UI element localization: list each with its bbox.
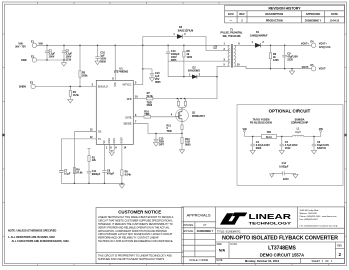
SS wire [74,132,96,184]
bottom GND rail [61,183,124,188]
capacitor C7 [59,171,63,173]
svg-text:NON-OPTO ISOLATED FLYBACK CONV: NON-OPTO ISOLATED FLYBACK CONVERTER [222,236,338,242]
wire VIN pin drop to U1 [114,45,116,80]
resistor R13 sense [179,134,184,154]
title block [182,207,345,264]
svg-text:TC: TC [98,138,101,141]
svg-text:TECHNOLOGY: TECHNOLOGY [249,220,292,225]
wire VIN rail [37,44,223,46]
pin 5 INTVCC wire [133,84,143,86]
gate wire with R10 [133,116,175,119]
svg-text:DESCRIPTION: DESCRIPTION [265,12,283,16]
svg-text:1206: 1206 [187,56,193,59]
svg-text:TBD: TBD [144,113,149,116]
diode D3 BAS21ZFILM [177,34,182,38]
svg-text:ECO: ECO [228,12,234,16]
diode D1 [241,44,311,46]
notes [8,229,70,243]
svg-text:0805: 0805 [100,61,106,64]
capacitor C15 [153,134,158,147]
svg-text:INTVCC: INTVCC [123,84,132,87]
terminal E2 [32,58,36,62]
clamp bottom wire [168,76,192,78]
svg-text:NOTE: UNLESS OTHERWISE SPECIFI: NOTE: UNLESS OTHERWISE SPECIFIED [8,229,56,232]
svg-text:Phone: (408)432-1900: Phone: (408)432-1900 [300,216,322,218]
ground left of C14 [270,173,275,177]
inductor L1 [293,135,304,136]
resistor R3 205k [79,45,81,86]
terminal E1 [32,43,36,47]
svg-text:N/A: N/A [219,249,226,253]
clamp R8 [183,45,185,76]
svg-text:1812: 1812 [285,147,291,150]
optional circuit box [237,105,343,186]
ground right of C14 [293,173,298,178]
svg-text:SENSE: SENSE [123,123,132,126]
svg-text:SHDN: SHDN [19,86,26,89]
svg-text:2: 2 [339,252,342,257]
svg-text:100V: 100V [49,55,55,58]
svg-text:10µH: 10µH [295,132,301,134]
svg-text:97.6k: 97.6k [76,171,83,174]
svg-text:GND: GND [113,138,116,144]
wire GND from E2 [37,59,66,61]
svg-text:36V - 75V: 36V - 75V [15,46,26,49]
svg-text:ZHONGMING Y: ZHONGMING Y [305,20,322,22]
snubber resistor pair above Q1 [177,99,186,109]
LT logo [220,212,292,225]
svg-text:FDMC2674: FDMC2674 [192,115,205,118]
svg-text:205k: 205k [82,75,88,78]
svg-text:VIN: VIN [39,43,43,46]
terminal E5 [311,67,315,71]
svg-text:VOUT+: VOUT+ [301,42,310,45]
svg-text:DATE:: DATE: [217,259,224,262]
svg-text:ENUVLO: ENUVLO [98,86,108,89]
svg-text:SCALE = NONE: SCALE = NONE [189,258,208,262]
svg-text:FB NL321611GS00: FB NL321611GS00 [250,122,273,125]
svg-text:LT3748EMS: LT3748EMS [268,245,296,251]
svg-text:0603: 0603 [147,104,153,107]
TC wire [61,139,96,183]
wire VOUT- rail [241,66,311,68]
svg-text:0.1µF: 0.1µF [64,172,71,175]
capacitor C1 [45,45,49,60]
svg-text:0805: 0805 [155,81,161,84]
resistor R9 [73,168,75,174]
svg-text:ALL CAPACITORS ARE IN MICROFAR: ALL CAPACITORS ARE IN MICROFARADS, 0402. [12,240,70,243]
svg-text:SUPPLIED FOR USE WITH LINEAR T: SUPPLIED FOR USE WITH LINEAR TECHNOLOGY … [98,258,165,261]
svg-text:1. ALL RESISTORS ARE IN OHMS,: 1. ALL RESISTORS ARE IN OHMS, 0402 [8,236,55,239]
svg-text:Milpitas, CA 95035: Milpitas, CA 95035 [300,212,318,215]
capacitor C6 [311,137,316,155]
capacitor C16 branch [143,69,155,82]
RFB wire with R7 [133,97,177,100]
svg-text:TBD: TBD [167,130,172,133]
customer notice box [96,208,184,264]
svg-text:6.04k: 6.04k [125,173,132,176]
R1 / C11 branch [87,149,91,184]
svg-text:10-04-10: 10-04-10 [330,19,340,22]
svg-text:TECHNOLOGY APPLICATIONS ENGINE: TECHNOLOGY APPLICATIONS ENGINEERING FOR … [98,240,173,243]
svg-text:GND: GND [21,59,27,62]
svg-text:12V@1.5A: 12V@1.5A [319,46,331,49]
svg-text:APPROVALS: APPROVALS [187,213,211,218]
ferrite bead FB1 [262,134,277,138]
svg-text:IC NO.: IC NO. [231,244,238,246]
capacitor C4 [250,137,255,155]
capacitor C5 [279,137,284,155]
boost wire with D3 [143,37,223,51]
svg-text:CDRH4D22/HP: CDRH4D22/HP [291,122,309,125]
terminal E4 [311,43,315,47]
svg-text:RREF: RREF [121,136,124,143]
svg-text:0805: 0805 [185,144,191,147]
svg-text:RFB: RFB [127,98,132,101]
ground (input) [61,60,66,66]
jumper circle near T1 pin1 [214,46,217,49]
svg-text:OPTIONAL CIRCUIT: OPTIONAL CIRCUIT [269,108,311,113]
svg-text:0805: 0805 [171,59,177,62]
svg-text:DEMO CIRCUIT 1557A: DEMO CIRCUIT 1557A [260,252,304,257]
diode D2 BAV20WS [192,75,197,79]
ground (output) [289,69,294,75]
svg-text:1206: 1206 [273,59,279,62]
svg-text:LT3748EMS: LT3748EMS [114,70,129,74]
svg-text:VOUT-: VOUT- [302,66,310,69]
SENSE wire [133,124,182,134]
INTVCC vertical riser [142,37,144,85]
capacitor C10 [95,45,100,64]
svg-text:APP ENG.: APP ENG. [183,230,194,233]
svg-text:52.3k: 52.3k [147,95,154,98]
svg-text:470pF: 470pF [107,173,115,176]
svg-text:Fax: (408)434-0507: Fax: (408)434-0507 [300,219,319,221]
wire SW: pin5 to Q1 drain [177,66,222,98]
svg-text:WE, 750311438: WE, 750311438 [223,35,241,38]
RREF branch with R5 [121,144,123,183]
svg-text:LTC Confidential-For Customer: LTC Confidential-For Customer Use Only [300,225,339,228]
capacitor C2 [62,45,66,60]
U1 LT3748EMS [96,80,133,144]
svg-text:SS: SS [98,131,102,134]
svg-text:BEAD: BEAD [266,136,273,139]
svg-text:VIN: VIN [114,82,117,86]
svg-text:SIZE: SIZE [217,244,223,246]
terminal E3 SHDN [31,84,35,88]
revision history table [225,5,345,23]
svg-text:0.033µF: 0.033µF [279,165,289,168]
svg-text:1210: 1210 [66,58,72,61]
wire SHDN to ENUVLO [35,86,96,88]
svg-text:VOUT-: VOUT- [319,68,327,71]
svg-text:16.5k: 16.5k [73,94,80,97]
transistor Q1 FDMC2674 [176,109,189,122]
svg-text:VC: VC [103,140,106,144]
svg-text:TITLE: SCHEMATIC: TITLE: SCHEMATIC [217,229,241,233]
svg-text:0603: 0603 [256,147,262,150]
svg-text:REV.: REV. [337,245,343,248]
svg-text:BAV20WS: BAV20WS [188,69,200,72]
svg-text:ZHONGMING Y: ZHONGMING Y [197,231,214,233]
svg-text:Monday, October 04, 2010: Monday, October 04, 2010 [245,259,280,263]
svg-text:SANYO: SANYO [317,147,326,150]
svg-text:GND: GND [108,138,111,144]
resistor R4 16.5k [68,87,73,104]
GND pins to ground [109,144,114,155]
svg-text:DATE: DATE [331,12,338,16]
svg-text:REV: REV [239,12,245,16]
svg-text:12k: 12k [92,159,97,162]
svg-text:APPROVED: APPROVED [306,12,321,16]
svg-text:OPT: OPT [159,143,165,146]
VC branch with C8 [102,144,106,183]
capacitor C9 [282,45,287,68]
svg-text:6800pF: 6800pF [92,173,101,176]
svg-text:2220: 2220 [287,58,293,61]
svg-text:PCB DES.: PCB DES. [183,225,194,227]
svg-text:FB1: FB1 [267,131,272,134]
svg-text:SHEET 1 OF 1: SHEET 1 OF 1 [312,259,333,263]
svg-text:REVISION HISTORY: REVISION HISTORY [268,7,301,11]
svg-text:PRODUCTION: PRODUCTION [266,19,283,22]
optional circuit wire [245,136,321,138]
clamp C13 [166,45,170,76]
svg-text:10MQ100NPbF: 10MQ100NPbF [250,35,268,38]
svg-text:2220: 2220 [283,178,289,181]
svg-text:1630 McCarthy Blvd.: 1630 McCarthy Blvd. [300,209,320,212]
resistor R6 preload [269,45,271,68]
wire T1 pin3 left [168,60,222,62]
svg-text:www.linear.com: www.linear.com [322,215,337,218]
svg-text:GATE: GATE [125,116,132,119]
resistor R11 [181,122,183,134]
svg-text:CUSTOMER NOTICE: CUSTOMER NOTICE [118,210,161,215]
